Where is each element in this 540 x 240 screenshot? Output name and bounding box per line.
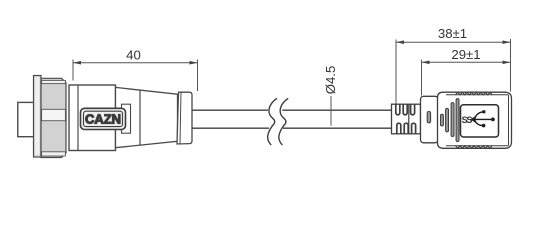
svg-text:38±1: 38±1 <box>438 26 467 41</box>
rib slot bottom 2 <box>404 123 408 133</box>
overmold inner top line <box>446 94 509 96</box>
dimension 38 extension left <box>395 40 397 104</box>
USB trident lower branch <box>475 120 483 125</box>
coupling ring groove band bottom <box>42 152 66 156</box>
USB trident upper branch <box>475 112 483 119</box>
USB trident stem dot <box>491 118 495 122</box>
dimension 29 extension left <box>421 60 423 96</box>
svg-text:Ø4.5: Ø4.5 <box>323 66 338 95</box>
dimension 40 arrow right <box>190 61 198 65</box>
grip bar 1 <box>441 114 444 126</box>
dimension 29 arrow left <box>422 61 430 65</box>
svg-text:29±1: 29±1 <box>451 47 480 62</box>
overmold inner bottom line <box>446 145 509 147</box>
USB trident upper square <box>482 110 485 113</box>
dimension 40 extension right <box>197 60 199 92</box>
end cap <box>177 92 192 144</box>
diameter leader line <box>330 96 332 126</box>
rib slot bottom 3 <box>412 123 416 133</box>
cable right segment top <box>282 109 391 111</box>
grip bar 2 <box>446 108 449 131</box>
grip bar 4 <box>456 99 459 142</box>
end cap inner line <box>180 92 181 143</box>
cable right segment bottom <box>283 127 392 129</box>
rib slot top 3 <box>411 104 415 114</box>
coupling ring groove band middle <box>42 109 66 120</box>
badge backing plate <box>122 104 131 133</box>
connector body cylinder <box>69 85 116 151</box>
CAZN badge outer <box>81 108 126 129</box>
cable left segment top <box>192 109 268 111</box>
svg-text:40: 40 <box>126 48 141 63</box>
rib middle divider <box>408 104 410 133</box>
neck grip bar <box>427 111 430 123</box>
svg-text:CAZN: CAZN <box>85 111 121 126</box>
cone seam <box>139 90 141 145</box>
rib slot bottom 1 <box>397 123 401 133</box>
USB logo panel <box>461 105 499 137</box>
rib slot top 2 <box>403 104 407 114</box>
overmold inner right line <box>508 95 510 146</box>
USB trident lower dot <box>482 124 486 128</box>
dimension 40 extension left <box>72 60 74 81</box>
grip bar 3 <box>451 103 454 137</box>
dimension 38 line <box>396 41 511 43</box>
rib slot top 1 <box>396 104 400 114</box>
serration top <box>456 92 493 94</box>
USB trident arrowhead <box>470 116 475 122</box>
overmold body <box>438 92 512 148</box>
dimension 40 line <box>73 62 198 64</box>
flange highlight <box>35 78 39 155</box>
dimension 38/29 extension right <box>510 39 512 92</box>
serration bottom <box>456 146 493 148</box>
strain relief ribs body <box>392 104 421 134</box>
dimension 40 arrow left <box>73 61 81 65</box>
dimension 38 arrow right <box>503 40 511 44</box>
left connector mating boss <box>18 102 34 136</box>
body collar line <box>77 86 79 150</box>
coupling ring <box>41 78 66 157</box>
svg-text:SS: SS <box>462 115 473 125</box>
cable left segment bottom <box>192 127 269 129</box>
break symbol left curve <box>268 98 277 145</box>
neck of overmold <box>421 96 439 143</box>
cone section <box>116 87 178 147</box>
left connector flange <box>34 76 42 158</box>
CAZN badge inner <box>84 111 123 126</box>
break symbol right curve <box>279 98 288 145</box>
dimension 29 arrow right <box>503 61 511 65</box>
USB trident stem <box>473 118 493 120</box>
dimension 38 arrow left <box>396 40 404 44</box>
dimension 29 line <box>422 61 511 63</box>
coupling ring groove band top <box>42 80 66 83</box>
